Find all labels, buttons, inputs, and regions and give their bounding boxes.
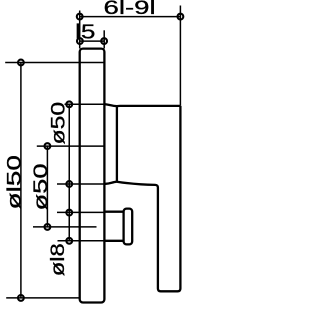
svg-text:øl8: øl8: [48, 243, 69, 276]
svg-text:l5: l5: [75, 21, 95, 43]
svg-text:ø50: ø50: [31, 164, 52, 211]
svg-text:øl50: øl50: [5, 155, 26, 209]
svg-text:6l-9l: 6l-9l: [104, 0, 156, 19]
svg-text:ø50: ø50: [49, 102, 70, 145]
